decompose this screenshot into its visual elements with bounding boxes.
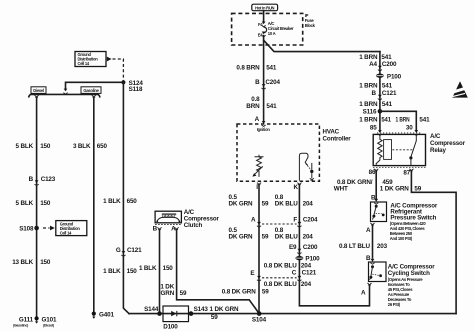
svg-text:1 BLK: 1 BLK [103, 268, 121, 275]
wire 5 BLK 150 (diesel ground wire) [36, 98, 38, 316]
ground G111/G101 [13, 316, 57, 327]
svg-text:1 BRN: 1 BRN [359, 83, 378, 90]
pin A (HVAC controller) [255, 116, 266, 126]
svg-text:Controller: Controller [323, 136, 352, 143]
label 1 BLK 650 [103, 198, 137, 205]
svg-text:Compressor: Compressor [430, 140, 466, 147]
svg-text:A/C: A/C [430, 133, 441, 140]
diesel branch terminal [35, 95, 39, 97]
label 0.8 DK BLU 204 [264, 263, 312, 270]
label 1 BRN 541 [359, 101, 392, 108]
svg-text:150: 150 [40, 259, 51, 266]
svg-text:G101: G101 [42, 317, 57, 324]
label IP Fuse Block [305, 13, 316, 28]
connector B C121 [371, 90, 397, 100]
svg-text:Cycling Switch: Cycling Switch [388, 270, 430, 277]
svg-text:GRN: GRN [161, 290, 175, 297]
label 13 BLK 150 [12, 259, 51, 266]
svg-text:Diesel: Diesel [33, 88, 44, 93]
svg-text:541: 541 [381, 117, 391, 124]
wire 1 DK GRN 59 (clutch A to S104) [177, 230, 260, 314]
grommet P100 [296, 256, 321, 263]
pin B (clutch) [153, 226, 162, 233]
Diesel tag box [31, 87, 46, 94]
wire 0.8 BRN 541 down to HVAC [263, 36, 265, 122]
wire 1 DK GRN 59 (87 to S104 bus) [411, 171, 456, 313]
svg-text:C200: C200 [382, 61, 397, 68]
label 5 BLK 150 [16, 200, 51, 207]
svg-text:59: 59 [414, 186, 421, 193]
svg-text:B: B [371, 195, 376, 202]
svg-text:S104: S104 [252, 317, 267, 324]
connector G C121 [116, 247, 142, 256]
node S116 [363, 108, 383, 115]
svg-text:C: C [292, 270, 297, 277]
svg-text:0.8 DK BLU: 0.8 DK BLU [264, 263, 297, 270]
svg-text:59: 59 [180, 290, 187, 297]
svg-text:5 BLK: 5 BLK [16, 143, 34, 150]
connector row C204 pins A/F [251, 217, 318, 228]
logo [451, 81, 470, 97]
svg-text:A: A [251, 217, 256, 224]
Hot in RUN tag [252, 4, 278, 11]
svg-text:A: A [366, 227, 371, 234]
split arrow into option bus [63, 89, 67, 95]
wire from S124 to split [66, 82, 124, 89]
node S104 [252, 311, 267, 323]
svg-text:B: B [153, 226, 158, 233]
label 1 BRN 541 [396, 117, 431, 124]
wire 1 BLK 650/150 from S124 to splice bus [123, 82, 129, 313]
svg-text:DK BLU: DK BLU [275, 234, 298, 241]
label 1 DK GRN 59 [210, 306, 239, 321]
svg-text:G401: G401 [99, 312, 114, 319]
wire feed into breaker [263, 11, 265, 22]
svg-text:10 A: 10 A [268, 31, 276, 36]
svg-text:150: 150 [127, 268, 138, 275]
svg-text:A: A [255, 116, 260, 123]
svg-text:C121: C121 [127, 247, 142, 254]
svg-text:E: E [250, 270, 254, 277]
label 0.8 DK BLU 204 [275, 227, 314, 241]
svg-text:204: 204 [301, 281, 312, 288]
wire branch to relay column [264, 40, 380, 51]
svg-text:S118: S118 [129, 86, 143, 93]
svg-text:B: B [366, 255, 371, 262]
svg-text:G111: G111 [19, 317, 34, 324]
svg-text:26 PSI): 26 PSI) [388, 302, 401, 307]
pin A (cycling switch) [361, 283, 372, 297]
svg-text:Ignition: Ignition [257, 127, 271, 132]
svg-text:(Diesel): (Diesel) [43, 324, 54, 328]
node S144 [144, 306, 162, 316]
label 3 BLK 650 [73, 143, 108, 150]
svg-text:59: 59 [262, 289, 269, 296]
label 0.8 DK BLU 204 [264, 281, 312, 288]
svg-text:DK GRN: DK GRN [229, 234, 254, 241]
label A/C Compressor Cycling Switch [388, 264, 435, 308]
label 0.5 DK GRN 59 [229, 227, 269, 241]
svg-text:B: B [29, 176, 34, 183]
pin A (clutch) [171, 226, 179, 233]
hvac internal switch [299, 153, 314, 180]
label A/C Compressor Clutch [184, 209, 220, 229]
label 5 BLK 150 [16, 143, 51, 150]
connector B C123 [29, 176, 56, 186]
pin 30 [406, 125, 419, 136]
svg-text:Gasoline: Gasoline [83, 88, 99, 93]
svg-text:59: 59 [211, 314, 218, 321]
svg-text:DK GRN: DK GRN [229, 201, 254, 208]
svg-text:1 BLK: 1 BLK [103, 198, 121, 205]
a/c compressor cycling switch [369, 262, 387, 282]
node S108 [19, 225, 39, 232]
svg-text:S108: S108 [19, 225, 34, 232]
svg-text:1 DK GRN: 1 DK GRN [380, 186, 409, 193]
label 0.8 BRN 541 [236, 65, 277, 72]
svg-text:HVAC: HVAC [323, 129, 340, 136]
a/c compressor refrigerant pressure switch [371, 202, 387, 222]
label 0.8 LT BLU 203 [339, 243, 388, 250]
svg-text:C121: C121 [382, 90, 397, 97]
label HVAC Controller [323, 129, 352, 143]
label 1 BRN 541 [359, 83, 392, 90]
label 0.8 DK GRN/WHT 459 [334, 179, 393, 193]
svg-text:S144: S144 [144, 306, 159, 313]
pin B (cycling switch) [366, 255, 375, 264]
svg-text:1 DK GRN: 1 DK GRN [210, 306, 239, 313]
wire 3 BLK 650 (gasoline ground wire) [93, 98, 95, 311]
label 0.8 DK GRN 59 [222, 289, 269, 296]
a/c compressor clutch [155, 211, 181, 224]
svg-text:E9: E9 [289, 244, 297, 251]
svg-text:541: 541 [266, 65, 277, 72]
connector E9 C200 [289, 244, 318, 254]
label 1 DK GRN 59 [380, 186, 422, 193]
svg-text:(Gasoline): (Gasoline) [13, 324, 28, 328]
svg-text:204: 204 [301, 263, 312, 270]
ground G401 [92, 312, 115, 319]
svg-text:C123: C123 [41, 176, 56, 183]
svg-text:K: K [293, 184, 298, 191]
svg-text:59: 59 [262, 234, 269, 241]
diode D100 [163, 306, 189, 330]
svg-text:C121: C121 [302, 270, 317, 277]
pin I [256, 183, 261, 192]
wire branch S116 to relay 30 [380, 111, 416, 131]
svg-text:0.8 DK BLU: 0.8 DK BLU [264, 281, 297, 288]
svg-text:1 BRN: 1 BRN [396, 117, 410, 124]
svg-text:13 BLK: 13 BLK [12, 259, 33, 266]
svg-text:541: 541 [419, 117, 430, 124]
svg-text:150: 150 [40, 143, 51, 150]
node S124/S118 [121, 80, 143, 93]
node S143 [189, 306, 209, 316]
pin B (pressure switch) [371, 195, 378, 205]
wire 0.8 DK GRN/WHT 459 (86 to pressure switch) [375, 171, 377, 198]
pin 86 [369, 169, 379, 176]
pin F4 [258, 22, 266, 28]
svg-text:541: 541 [382, 101, 393, 108]
wire 0.8 LT BLU 203 [372, 226, 374, 258]
svg-text:203: 203 [377, 243, 388, 250]
svg-text:59: 59 [262, 201, 269, 208]
pin K [293, 183, 301, 192]
svg-text:204: 204 [303, 234, 314, 241]
a/c circuit breaker [264, 21, 294, 36]
a/c compressor relay [373, 133, 425, 168]
HVAC controller dashed box [237, 124, 319, 181]
wire dashed link to S124 [113, 59, 124, 81]
hvac internal rheostat [252, 155, 263, 177]
label 0.5 DK GRN 59 [229, 194, 269, 208]
label 1 BRN 541 [359, 117, 391, 124]
Gasoline tag box [81, 87, 101, 94]
svg-text:30: 30 [406, 125, 413, 132]
svg-text:S143: S143 [194, 306, 209, 313]
svg-text:0.8 BRN: 0.8 BRN [236, 65, 260, 72]
svg-text:D100: D100 [163, 323, 178, 330]
pin 87 [403, 169, 413, 177]
svg-text:150: 150 [40, 200, 51, 207]
svg-text:650: 650 [127, 198, 138, 205]
pin 85 [370, 125, 382, 136]
svg-text:F: F [293, 217, 297, 224]
svg-text:1 BLK: 1 BLK [139, 265, 157, 272]
wire 0.5 DK GRN 59 (I to S104) [258, 185, 260, 313]
svg-text:204: 204 [303, 201, 314, 208]
svg-text:B: B [255, 79, 260, 86]
svg-text:541: 541 [266, 103, 277, 110]
label A/C Compressor Refrigerant Pressure Switch [390, 202, 438, 241]
connector A4 C200 [369, 61, 397, 71]
pin E4 [258, 32, 266, 38]
svg-text:541: 541 [382, 83, 393, 90]
svg-text:DK BLU: DK BLU [275, 201, 298, 208]
svg-text:1 BRN: 1 BRN [359, 101, 378, 108]
label 1 DK GRN 59 [160, 284, 187, 298]
label A/C Compressor Relay [430, 133, 466, 154]
option bus line under Diesel/Gasoline [29, 94, 100, 96]
wire 1 BLK 150 (clutch B to S144) [159, 230, 161, 314]
label 1 BLK 150 [103, 268, 137, 275]
svg-text:86: 86 [369, 169, 376, 176]
label 0.8 BRN 541 [246, 96, 277, 110]
svg-text:C200: C200 [303, 244, 318, 251]
label 0.8 DK BLU 204 [275, 194, 314, 208]
pin A (pressure switch) [366, 223, 375, 234]
svg-text:And 100 PSI): And 100 PSI) [390, 236, 413, 241]
grommet P100 [376, 73, 402, 80]
svg-text:WHT: WHT [334, 186, 348, 193]
svg-text:650: 650 [97, 143, 108, 150]
svg-text:B: B [371, 90, 376, 97]
svg-text:5 BLK: 5 BLK [16, 200, 34, 207]
gasoline branch terminal [92, 95, 96, 97]
wire 1 BRN 541 (fuse to relay 85) [379, 52, 381, 131]
svg-text:C204: C204 [265, 79, 280, 86]
svg-text:0.8 LT BLU: 0.8 LT BLU [339, 243, 371, 250]
label 1 BRN 541 [359, 54, 392, 61]
IP fuse block dashed box [232, 13, 303, 45]
connector row C121 pins E/C [250, 270, 316, 282]
svg-text:87: 87 [403, 170, 410, 177]
ground distribution reference box (top) [75, 52, 112, 67]
ground distribution reference box (S108) [43, 221, 87, 236]
svg-text:Relay: Relay [430, 147, 446, 154]
svg-text:A: A [361, 290, 366, 297]
svg-text:150: 150 [163, 265, 174, 272]
svg-text:Hot In RUN: Hot In RUN [255, 5, 274, 10]
svg-text:G: G [116, 247, 121, 254]
label 1 BLK 150 [139, 265, 173, 272]
svg-text:BRN: BRN [246, 103, 260, 110]
svg-text:85: 85 [370, 125, 377, 132]
svg-text:S116: S116 [363, 108, 377, 115]
wire 0.8 DK BLU 204 (K to cycling switch) [299, 185, 369, 305]
svg-text:P100: P100 [387, 73, 402, 80]
svg-text:0.8 DK GRN: 0.8 DK GRN [222, 289, 256, 296]
svg-text:Block: Block [305, 23, 316, 28]
svg-text:Cell 14: Cell 14 [78, 61, 90, 66]
svg-text:C204: C204 [303, 217, 318, 224]
splice bus wire (1 DK GRN 59) [129, 313, 456, 315]
svg-text:3 BLK: 3 BLK [73, 143, 91, 150]
connector B C204 [255, 79, 280, 89]
svg-text:Clutch: Clutch [184, 222, 203, 229]
svg-text:1 BRN: 1 BRN [359, 117, 378, 124]
svg-text:A4: A4 [369, 61, 377, 68]
svg-text:Cell 14: Cell 14 [60, 230, 72, 235]
